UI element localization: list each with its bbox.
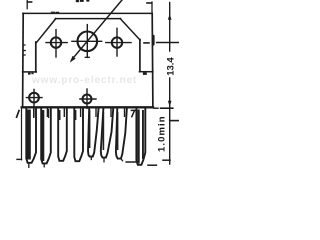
hole H4 (lower left) circle	[29, 93, 39, 103]
inner outline left vertical	[35, 42, 37, 72]
bottom-left extension line	[21, 107, 23, 159]
hole H1 circle	[51, 37, 61, 47]
hole H3 circle	[112, 37, 122, 47]
pin 4	[74, 108, 83, 161]
hole H4 crosshair vertical	[33, 89, 35, 107]
left step nubs	[28, 73, 34, 75]
pin 1 tail	[28, 163, 30, 168]
label 1 (bottom-left slash)	[17, 111, 19, 118]
pin 7 hook	[121, 159, 123, 161]
hole H1 crosshair vertical	[55, 30, 57, 57]
hole H2 crosshair vertical	[86, 25, 88, 58]
watermark	[32, 75, 137, 86]
top dimension text (cut off)	[76, 0, 90, 2]
hole H4 crosshair horizontal	[26, 97, 42, 99]
top dimension tick left	[27, 1, 31, 3]
cut dim dash between pin7 and pin8	[126, 161, 140, 163]
hole H5 crosshair horizontal	[80, 98, 96, 100]
cut dim dash right of pin8	[148, 164, 156, 166]
svg-text:13.4: 13.4	[166, 57, 177, 76]
right step nub	[143, 73, 147, 75]
body top edge	[23, 12, 152, 14]
hole H5 (lower center) circle	[83, 95, 92, 104]
bottom edge extension dash	[154, 107, 158, 109]
hole H3 crosshair vertical	[116, 28, 118, 56]
dim 13.4 arrow up	[168, 14, 172, 20]
hole H5 crosshair vertical	[86, 89, 88, 108]
pin 3	[58, 108, 67, 161]
inner outline right chamfer	[120, 19, 140, 40]
pin tip level dash	[163, 159, 170, 161]
hole H2 tail serif	[85, 56, 89, 58]
body bottom edge	[22, 106, 153, 108]
label 7 (near pin8)	[131, 110, 135, 116]
pin 8	[136, 108, 145, 165]
top dimension tick right	[147, 2, 151, 4]
body left edge	[22, 13, 25, 107]
body right edge	[151, 13, 154, 107]
lower tick at y=120.5	[170, 120, 179, 122]
body bottom edge (re-stroke over pin tops)	[22, 106, 153, 108]
inner outline top	[55, 18, 120, 20]
pins	[26, 108, 145, 165]
bottom-left tick	[17, 158, 22, 160]
centerline dash right	[144, 42, 149, 44]
left edge nubs	[24, 45, 26, 55]
inner outline right vertical	[139, 40, 141, 72]
centerline extension right	[157, 42, 179, 44]
pin 6 tail	[103, 158, 105, 162]
body right edge bump	[152, 35, 155, 46]
dim 13.4 arrow down	[168, 101, 172, 107]
pin 6	[101, 108, 114, 158]
hole H1 crosshair horizontal	[46, 42, 67, 44]
hole H2 crosshair horizontal	[72, 40, 102, 42]
leader line	[72, 0, 123, 60]
pin 2 tail	[43, 163, 45, 166]
dim 13.4 line upper	[169, 3, 171, 52]
pin 5	[88, 108, 99, 157]
extension line top-right	[151, 2, 153, 14]
pin 7	[116, 108, 127, 159]
right step horizontal	[139, 71, 153, 73]
dim 13.4 line lower	[169, 78, 171, 121]
hole H2 (center big) circle	[78, 32, 98, 52]
inner outline left chamfer	[37, 19, 56, 43]
pin shading streaks	[27, 109, 144, 164]
top edge tick marks	[52, 11, 59, 13]
left step horizontal	[23, 71, 37, 73]
pin 2	[41, 108, 51, 164]
hole H3 crosshair horizontal	[106, 42, 131, 44]
dim line continues to pin tip level	[169, 121, 171, 164]
bottom edge extension tick	[161, 107, 173, 109]
extension line top-left	[26, 0, 28, 9]
svg-text:1.0min: 1.0min	[157, 115, 168, 152]
leader arrowhead	[70, 56, 76, 63]
pin 5 tail	[90, 157, 92, 160]
pin 1	[26, 108, 36, 163]
